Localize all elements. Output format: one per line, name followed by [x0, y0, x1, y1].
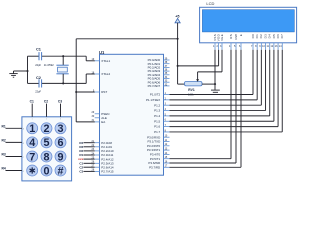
svg-text:P1.6: P1.6: [154, 125, 160, 129]
capacitor C1: [28, 52, 87, 60]
svg-text:P0.0/AD0: P0.0/AD0: [148, 58, 161, 62]
junction RST rail: [75, 91, 77, 93]
svg-text:1: 1: [32, 119, 33, 121]
svg-text:D2: D2: [259, 34, 263, 39]
svg-text:P2.5/A13: P2.5/A13: [101, 162, 114, 166]
net label C2 on P2.6: [79, 165, 94, 169]
U1 pin 4 P1.3: [154, 108, 169, 113]
wire P1.3 to LCD D3: [170, 50, 266, 111]
wire left vertical joining C1 and C2: [26, 56, 30, 83]
wire +5 to RV1 left terminal: [178, 82, 185, 86]
svg-text:7: 7: [29, 151, 35, 163]
svg-text:4: 4: [29, 137, 35, 149]
svg-text:RV1: RV1: [188, 88, 195, 92]
microcontroller U1 body: [100, 54, 164, 175]
U1 pin 15 P3.5/T1: [150, 156, 170, 161]
wire P3.7 to LCD E: [170, 50, 242, 168]
keypad button *: [27, 165, 38, 176]
svg-text:3: 3: [60, 119, 61, 121]
svg-text:C1: C1: [30, 99, 34, 103]
LCD module body: [200, 7, 297, 43]
svg-text:R1: R1: [79, 153, 83, 157]
U1 pin 12 P3.2/INT0: [147, 143, 170, 148]
svg-text:D7: D7: [280, 34, 284, 39]
svg-text:0: 0: [43, 165, 49, 177]
svg-text:9: 9: [57, 151, 63, 163]
svg-text:RW: RW: [234, 34, 238, 40]
svg-text:P1.2: P1.2: [154, 103, 160, 107]
svg-text:#: #: [57, 165, 63, 177]
svg-text:P0.7/AD7: P0.7/AD7: [148, 84, 161, 88]
LCD pin D4 label and stub: [267, 34, 272, 50]
keypad button 1: [27, 123, 38, 135]
net label R4 on P2.0: [79, 141, 94, 145]
LCD pin D0 label and stub: [251, 34, 255, 50]
svg-text:5: 5: [43, 137, 49, 149]
svg-text:P3.1/TXD: P3.1/TXD: [147, 140, 160, 144]
svg-text:PSEN: PSEN: [101, 112, 109, 116]
wire P3.6 to LCD RW: [170, 50, 237, 163]
svg-text:2: 2: [46, 119, 47, 121]
svg-text:EA: EA: [101, 120, 105, 124]
wire C2 to XTAL2 pin step: [86, 74, 95, 83]
ground (crystal capacitors): [9, 74, 17, 78]
svg-text:2: 2: [43, 123, 49, 135]
keypad button 3: [55, 123, 66, 135]
wire ground branch from capacitors: [14, 71, 28, 74]
svg-text:C1: C1: [36, 47, 42, 52]
svg-text:xxx: xxx: [78, 157, 83, 161]
svg-text:P1.3: P1.3: [154, 109, 160, 113]
svg-text:C3: C3: [79, 170, 83, 174]
LCD pin D3 label and stub: [262, 34, 267, 50]
U1 pin 1 P1.0/T2: [150, 92, 170, 97]
wire EA pin: [76, 120, 95, 124]
svg-text:P1.4: P1.4: [154, 114, 160, 118]
net label R3 on P2.1: [79, 145, 94, 149]
U1 pin 24 P2.3/A11: [92, 152, 114, 157]
LCD pin D2 label and stub: [259, 34, 263, 50]
net label R1 on P2.3: [79, 153, 94, 157]
junction VSS-ground-RV1: [214, 83, 216, 85]
LCD pin VDD label and stub: [217, 33, 221, 49]
svg-text:R3: R3: [79, 145, 83, 149]
wire +5 vertical rail: [176, 23, 180, 84]
net label C3 on P2.7: [79, 170, 94, 174]
net label R4 keypad row wire: [2, 167, 25, 173]
svg-text:C3: C3: [58, 99, 62, 103]
U1 pin 26 P2.5/A13: [92, 161, 114, 166]
svg-text:D0: D0: [251, 34, 255, 39]
U1 pin 14 P3.4/T0: [150, 152, 170, 157]
svg-text:C2: C2: [79, 165, 83, 169]
svg-text:R2: R2: [79, 149, 83, 153]
svg-text:D3: D3: [263, 34, 267, 39]
svg-text:LCD: LCD: [206, 1, 214, 6]
net label R2 on P2.2: [79, 149, 94, 153]
U1 pin 18 XTAL2: [92, 71, 111, 76]
crystal X1: [56, 56, 68, 83]
svg-text:P0.5/AD5: P0.5/AD5: [148, 77, 161, 81]
capacitor C2: [28, 79, 87, 87]
net label R3 keypad row wire: [2, 153, 25, 159]
U1 pin 11 P3.1/TXD: [147, 139, 169, 144]
net label R1 keypad row wire: [2, 125, 25, 131]
U1 pin 5 P1.4: [154, 113, 169, 118]
U1 pin 39 P0.0/AD0: [148, 57, 170, 62]
svg-text:P2.1/A9: P2.1/A9: [101, 145, 112, 149]
U1 pin 16 P3.6/WR: [148, 160, 169, 165]
keypad button 6: [55, 137, 66, 149]
U1 pin 19 XTAL1: [92, 58, 111, 63]
net label C1 keypad column wire: [30, 99, 34, 120]
svg-text:P2.7/A15: P2.7/A15: [101, 170, 114, 174]
svg-text:P2.0/A8: P2.0/A8: [101, 141, 112, 145]
svg-text:P3.4/T0: P3.4/T0: [150, 153, 161, 157]
svg-text:P1.0/T2: P1.0/T2: [150, 93, 161, 97]
U1 pin 35 P0.4/AD4: [148, 72, 170, 77]
svg-text:R3: R3: [2, 153, 6, 157]
keypad button 8: [41, 151, 52, 163]
svg-text:D4: D4: [268, 34, 272, 39]
svg-text:P3.6/WR: P3.6/WR: [148, 161, 160, 165]
junction crystal to XTAL1 wire: [62, 55, 64, 57]
svg-text:U1: U1: [99, 50, 105, 55]
keypad button 2: [41, 123, 52, 135]
U1 pin 33 P0.6/AD6: [148, 80, 170, 85]
junction on capacitor vertical at ground tap: [26, 70, 28, 72]
svg-text:R4: R4: [2, 167, 6, 171]
wire P3.5 to LCD RS: [170, 50, 232, 159]
keypad button 5: [41, 137, 52, 149]
svg-text:R1: R1: [2, 125, 6, 129]
ground (LCD VSS / RV1): [211, 84, 220, 94]
U1 pin 6 P1.5: [154, 119, 169, 124]
U1 pin 28 P2.7/A15: [92, 169, 114, 174]
U1 pin 10 P3.0/RXD: [147, 135, 169, 140]
LCD pin RS label and stub: [229, 34, 233, 50]
svg-text:P2.4/A12: P2.4/A12: [101, 157, 114, 161]
svg-text:6: 6: [57, 137, 63, 149]
U1 pin 34 P0.5/AD5: [148, 76, 170, 81]
U1 pin 13 P3.3/INT1: [147, 148, 170, 153]
svg-text:11.0592: 11.0592: [44, 63, 54, 67]
U1 pin 7 P1.6: [154, 124, 169, 129]
svg-text:3: 3: [57, 123, 63, 135]
wire P1.6 to LCD D6: [170, 50, 279, 127]
wire RST-EA vertical rail: [74, 39, 78, 122]
wire VSS to ground node: [213, 50, 217, 84]
U1 pin 23 P2.2/A10: [92, 148, 114, 153]
U1 pin 29 PSEN: [92, 111, 110, 116]
LCD pin D7 label and stub: [279, 34, 284, 50]
svg-text:P0.6/AD6: P0.6/AD6: [148, 80, 161, 84]
keypad button 4: [27, 137, 38, 149]
wire P1.7 to LCD D7: [170, 50, 283, 132]
U1 pin 38 P0.1/AD1: [148, 61, 170, 66]
junction +5 with top rail: [177, 38, 179, 40]
wire top rail to +5: [76, 37, 177, 41]
LCD pin D6 label and stub: [275, 34, 280, 50]
keypad button 9: [55, 151, 66, 163]
potentiometer RV1: [185, 72, 203, 86]
svg-text:P1.7: P1.7: [154, 130, 160, 134]
U1 pin 21 P2.0/A8: [92, 140, 113, 145]
U1 pin 22 P2.1/A9: [92, 144, 113, 149]
svg-text:P3.7/RD: P3.7/RD: [149, 165, 160, 169]
wire RST pin: [76, 90, 95, 94]
svg-text:1: 1: [29, 123, 35, 135]
junction +5 with VDD branch: [177, 65, 179, 67]
svg-text:RST: RST: [101, 90, 107, 94]
svg-text:D1: D1: [255, 34, 259, 39]
svg-text:C2: C2: [44, 99, 48, 103]
svg-text:P2.2/A10: P2.2/A10: [101, 149, 114, 153]
wire P1.1 to LCD D1: [170, 50, 258, 100]
LCD pin VSS label and stub: [213, 34, 217, 50]
U1 pin 25 P2.4/A12: [92, 156, 114, 161]
wire P1.0 to LCD D0: [170, 50, 254, 95]
svg-text:ALE: ALE: [101, 116, 107, 120]
keypad button 7: [27, 151, 38, 163]
U1 pin 8 P1.7: [154, 129, 169, 134]
svg-text:P3.3/INT1: P3.3/INT1: [147, 148, 161, 152]
wire VEE to RV1 wiper: [198, 50, 222, 72]
svg-text:P3.5/T1: P3.5/T1: [150, 157, 161, 161]
svg-text:P1.1/T2EX: P1.1/T2EX: [146, 98, 160, 102]
svg-text:XTAL2: XTAL2: [101, 72, 110, 76]
svg-text:VEE: VEE: [220, 34, 224, 41]
svg-text:P2.3/A11: P2.3/A11: [101, 153, 113, 157]
svg-text:P3.0/RXD: P3.0/RXD: [147, 135, 160, 139]
keypad body: [22, 117, 72, 181]
svg-text:P0.4/AD4: P0.4/AD4: [148, 73, 161, 77]
U1 pin 32 P0.7/AD7: [148, 83, 170, 88]
LCD pin E label and stub: [239, 34, 243, 50]
net label C1 on P2.5: [79, 161, 94, 165]
wire P1.2 to LCD D2: [170, 50, 262, 105]
svg-text:P0.3/AD3: P0.3/AD3: [148, 69, 161, 73]
U1 pin 9 RST: [93, 89, 108, 94]
svg-text:8: 8: [43, 151, 49, 163]
svg-text:D6: D6: [276, 34, 280, 39]
net label C3 keypad column wire: [58, 99, 62, 120]
U1 pin 30 ALE: [92, 115, 107, 120]
junction crystal to XTAL2 wire: [62, 82, 64, 84]
svg-text:C1: C1: [79, 161, 83, 165]
svg-text:D5: D5: [272, 34, 276, 39]
wire VDD to +5: [178, 50, 219, 66]
LCD pin RW label and stub: [234, 34, 238, 50]
U1 pin 17 P3.7/RD: [149, 165, 169, 170]
LCD pin VEE label and stub: [220, 34, 224, 50]
svg-text:R4: R4: [79, 141, 83, 145]
net label R2 keypad row wire: [2, 139, 25, 145]
svg-text:RS: RS: [229, 34, 233, 39]
svg-text:R2: R2: [2, 139, 6, 143]
keypad button 0: [41, 165, 52, 177]
U1 pin 3 P1.2: [154, 103, 169, 108]
wire C1 to XTAL1 pin step: [86, 56, 95, 61]
U1 pin 27 P2.6/A14: [92, 165, 114, 170]
LCD screen: [202, 10, 294, 32]
U1 pin 2 P1.1/T2EX: [146, 97, 170, 102]
U1 pin 36 P0.3/AD3: [148, 69, 170, 74]
svg-text:P0.2/AD2: P0.2/AD2: [148, 66, 161, 70]
U1 pin 31 EA: [92, 119, 106, 124]
svg-text:P2.6/A14: P2.6/A14: [101, 165, 114, 169]
net label C2 keypad column wire: [44, 99, 48, 120]
wire P1.5 to LCD D5: [170, 50, 274, 121]
svg-text:XTAL1: XTAL1: [101, 59, 110, 63]
keypad button #: [55, 165, 66, 177]
wire P1.4 to LCD D4: [170, 50, 270, 116]
svg-text:P0.1/AD1: P0.1/AD1: [148, 62, 161, 66]
wire RV1 right terminal to VSS net: [202, 82, 215, 86]
svg-text:P1.5: P1.5: [154, 119, 160, 123]
svg-text:P3.2/INT0: P3.2/INT0: [147, 144, 161, 148]
LCD pin D5 label and stub: [271, 34, 276, 50]
svg-text:E: E: [239, 34, 243, 36]
U1 pin 37 P0.2/AD2: [148, 65, 170, 70]
LCD pin D1 label and stub: [255, 34, 259, 50]
svg-text:C2: C2: [36, 75, 42, 80]
net label xxx on P2.4: [78, 157, 95, 161]
power +5 symbol: [175, 15, 180, 23]
